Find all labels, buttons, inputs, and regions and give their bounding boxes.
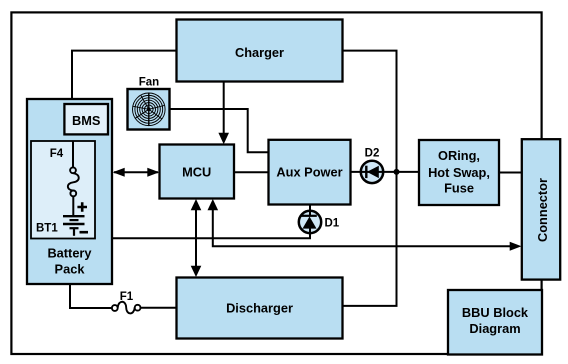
block MCU — [160, 145, 235, 199]
wire Battery Pack bottom to F1 — [70, 283, 112, 308]
svg-text:Hot Swap,: Hot Swap, — [428, 165, 490, 180]
block Battery Pack — [27, 99, 112, 284]
fuse F4 — [68, 141, 79, 215]
junction node — [394, 169, 400, 175]
svg-text:Diagram: Diagram — [469, 321, 520, 336]
svg-text:BT1: BT1 — [36, 223, 58, 235]
svg-text:F4: F4 — [50, 148, 64, 160]
svg-text:Battery: Battery — [47, 246, 92, 261]
wire Charger right to node column down to Discharger right — [342, 51, 397, 306]
svg-text:Fuse: Fuse — [444, 181, 474, 196]
svg-text:Aux Power: Aux Power — [276, 165, 342, 180]
wire Aux Power right through D2 to node and ORing left — [350, 171, 420, 173]
block BBU Block Diagram title — [448, 290, 542, 355]
block ORing Hot Swap Fuse — [419, 140, 499, 205]
svg-text:Fan: Fan — [139, 77, 159, 89]
fuse F1 — [112, 302, 141, 314]
diode D2 — [361, 161, 383, 183]
wire Battery Pack to MCU bidirectional arrow — [113, 168, 160, 177]
svg-text:BMS: BMS — [72, 113, 101, 128]
wire MCU bottom to Connector left with arrows — [208, 199, 522, 251]
block Aux Power — [269, 140, 351, 205]
wire ORing right to Connector left — [498, 172, 522, 174]
wire battery pack top to Charger left — [72, 51, 177, 100]
wire Aux Power bottom through D1 to Battery Pack right — [112, 202, 310, 238]
wire Fan right to Aux Power left — [169, 109, 269, 152]
svg-text:Pack: Pack — [55, 262, 86, 277]
block Charger — [177, 20, 343, 82]
svg-text:D1: D1 — [325, 218, 340, 230]
block Connector — [522, 139, 560, 279]
wire MCU right to Aux Power left — [234, 171, 269, 173]
wire F1 to Discharger left — [141, 307, 178, 309]
svg-text:MCU: MCU — [182, 165, 211, 180]
block Discharger — [177, 278, 343, 339]
battery cell inner box — [31, 141, 95, 239]
svg-text:Connector: Connector — [535, 178, 550, 242]
battery BT1 symbol — [36, 202, 88, 236]
wire Charger bottom to MCU top — [218, 81, 229, 144]
fan box with fan icon — [128, 89, 170, 130]
svg-text:BBU Block: BBU Block — [462, 305, 529, 320]
svg-text:Discharger: Discharger — [226, 301, 293, 316]
svg-text:D2: D2 — [365, 148, 380, 160]
svg-text:Charger: Charger — [235, 45, 284, 60]
svg-text:ORing,: ORing, — [438, 148, 480, 163]
wire MCU bottom to Discharger top bidirectional arrow — [191, 199, 202, 277]
diode D1 — [299, 211, 321, 233]
block BMS — [64, 104, 108, 134]
